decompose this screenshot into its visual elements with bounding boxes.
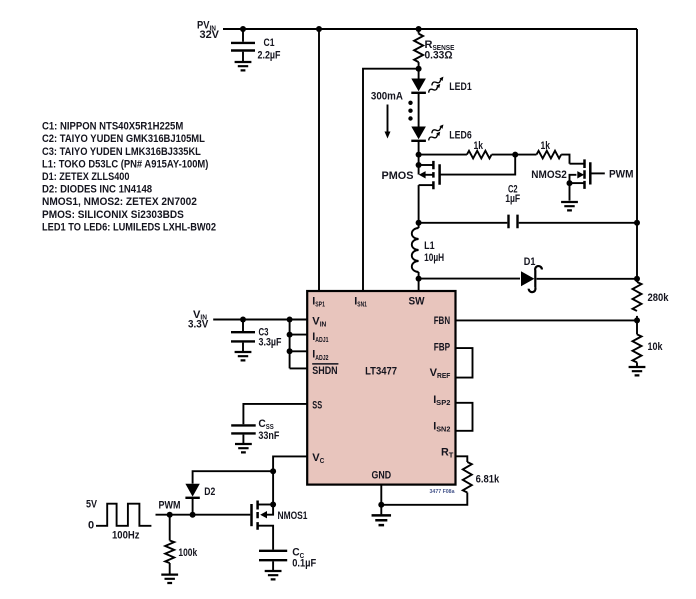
svg-text:D1: ZETEX ZLLS400: D1: ZETEX ZLLS400 xyxy=(42,171,130,183)
svg-text:PMOS: PMOS xyxy=(382,170,414,182)
wire ISN1 branch xyxy=(363,69,419,291)
svg-text:D2: DIODES INC 1N4148: D2: DIODES INC 1N4148 xyxy=(42,184,152,196)
waveform 5V/0 square wave xyxy=(86,498,151,541)
svg-text:2.2µF: 2.2µF xyxy=(258,50,281,62)
svg-text:100Hz: 100Hz xyxy=(112,530,140,542)
svg-text:280k: 280k xyxy=(648,292,670,304)
junction dot (RSENSE top) xyxy=(416,26,422,32)
LED1 xyxy=(411,69,471,94)
svg-text:C2: TAIYO YUDEN GMK316BJ105ML: C2: TAIYO YUDEN GMK316BJ105ML xyxy=(42,133,205,145)
wire GND pin xyxy=(380,485,382,515)
wire to D1 xyxy=(419,278,520,280)
svg-text:LT3477: LT3477 xyxy=(365,366,397,378)
capacitor C3 xyxy=(231,320,282,352)
wire LED string xyxy=(418,94,420,127)
svg-text:1k: 1k xyxy=(541,140,551,152)
svg-text:3.3µF: 3.3µF xyxy=(259,336,282,348)
ground (C3) xyxy=(235,352,252,360)
svg-text:C1: C1 xyxy=(264,37,275,49)
wire IADJ branch xyxy=(290,320,308,369)
junction dot (D2 tap) xyxy=(190,512,196,518)
svg-text:3477 F08a: 3477 F08a xyxy=(430,489,456,495)
junction dot (node RSENSE bottom) xyxy=(416,66,422,72)
ground (NMOS2) xyxy=(561,202,578,210)
svg-text:SW: SW xyxy=(409,295,426,307)
junction dot (gate node) xyxy=(512,152,518,158)
svg-text:C1: NIPPON NTS40X5R1H225M: C1: NIPPON NTS40X5R1H225M xyxy=(42,121,183,133)
svg-text:5V: 5V xyxy=(86,498,98,510)
LED6 xyxy=(411,124,471,154)
inductor L1 xyxy=(412,223,444,279)
svg-text:NMOS2: NMOS2 xyxy=(531,169,567,181)
svg-text:C3: TAIYO YUDEN LMK316BJ335KL: C3: TAIYO YUDEN LMK316BJ335KL xyxy=(42,146,201,158)
svg-text:3.3V: 3.3V xyxy=(188,318,209,330)
node VIN label xyxy=(188,309,209,331)
ground (C1) xyxy=(235,62,252,70)
resistor 1k (right) xyxy=(537,140,562,159)
svg-text:L1: TOKO D53LC (PN# A915AY-100: L1: TOKO D53LC (PN# A915AY-100M) xyxy=(42,158,209,170)
junction dot (IADJ2) xyxy=(287,348,293,354)
transistor NMOS1 xyxy=(252,471,308,549)
ground (GND pin) xyxy=(372,515,391,525)
capacitor CC xyxy=(259,547,316,570)
capacitor C1 xyxy=(231,29,281,62)
junction dot (VC node) xyxy=(270,468,276,474)
svg-text:SHDN: SHDN xyxy=(312,365,337,377)
svg-text:GND: GND xyxy=(372,470,392,482)
svg-text:10k: 10k xyxy=(648,341,664,353)
resistor 100k xyxy=(165,515,198,574)
resistor RSENSE xyxy=(414,29,454,69)
svg-text:L1: L1 xyxy=(424,240,435,252)
ellipsis dots xyxy=(408,101,412,121)
svg-text:SS: SS xyxy=(312,400,322,412)
wire ISP2-ISN2 bracket xyxy=(456,403,473,431)
svg-text:NMOS1: NMOS1 xyxy=(278,510,308,522)
svg-text:0: 0 xyxy=(88,519,94,531)
svg-text:0.1µF: 0.1µF xyxy=(292,557,316,569)
wire FBN xyxy=(456,319,638,321)
junction dot (GND node) xyxy=(378,502,384,508)
wire FBP-VREF bracket xyxy=(456,348,473,378)
resistor 1k (left) xyxy=(467,140,492,159)
junction dot (IADJ branch) xyxy=(287,317,293,323)
svg-text:PWM: PWM xyxy=(159,499,181,511)
svg-text:6.81k: 6.81k xyxy=(476,474,500,486)
resistor 280k xyxy=(633,282,670,334)
junction dot (SW node) xyxy=(416,276,422,282)
300mA annotation xyxy=(371,91,403,139)
ground (10k) xyxy=(629,367,646,375)
svg-text:10µH: 10µH xyxy=(424,252,444,264)
svg-text:LED1 TO LED6: LUMILEDS LXHL-BW: LED1 TO LED6: LUMILEDS LXHL-BW02 xyxy=(42,221,216,233)
junction dot (D1 right) xyxy=(634,276,640,282)
ground (100k) xyxy=(161,575,178,583)
junction dot (100k tap) xyxy=(167,512,173,518)
wire to NMOS2 drain xyxy=(561,155,569,164)
wire SS xyxy=(243,404,307,424)
svg-text:LED6: LED6 xyxy=(449,129,471,141)
svg-text:1k: 1k xyxy=(474,140,484,152)
svg-text:0.33Ω: 0.33Ω xyxy=(425,50,453,62)
svg-text:1µF: 1µF xyxy=(505,193,520,205)
junction dot (C3 tap) xyxy=(240,317,246,323)
ground (CSS) xyxy=(235,444,252,452)
ground (CC) xyxy=(265,571,282,579)
resistor RT 6.81k xyxy=(381,456,500,505)
svg-text:LED1: LED1 xyxy=(449,81,471,93)
svg-text:PWM: PWM xyxy=(609,169,634,181)
wire VC xyxy=(273,456,307,471)
svg-text:FBN: FBN xyxy=(434,315,451,327)
node PVIN label xyxy=(197,20,220,42)
svg-text:D2: D2 xyxy=(204,486,215,498)
junction dot (LED6 bottom node) xyxy=(416,152,422,158)
wire to 1k (left) xyxy=(419,154,467,156)
junction dot (C1 tap) xyxy=(240,26,246,32)
svg-text:300mA: 300mA xyxy=(371,91,403,103)
junction dot (C2 left) xyxy=(416,220,422,226)
junction dot (FBN node) xyxy=(634,317,640,323)
junction dot (C2 right) xyxy=(634,220,640,226)
parts list text block xyxy=(42,121,216,234)
wire ISP1 drop xyxy=(318,29,320,291)
capacitor CSS xyxy=(231,418,279,443)
wire right rail xyxy=(636,29,638,282)
resistor 10k xyxy=(633,334,664,366)
svg-text:PMOS: SILICONIX Si2303BDS: PMOS: SILICONIX Si2303BDS xyxy=(42,209,184,221)
wire VIN xyxy=(213,319,307,321)
transistor NMOS2 xyxy=(531,159,605,200)
svg-text:NMOS1, NMOS2: ZETEX 2N7002: NMOS1, NMOS2: ZETEX 2N7002 xyxy=(42,196,197,208)
wire top rail xyxy=(223,28,637,30)
svg-text:D1: D1 xyxy=(524,256,536,268)
svg-text:FBP: FBP xyxy=(434,341,450,353)
capacitor C2 xyxy=(419,183,637,228)
diode D2 xyxy=(185,484,215,515)
svg-text:100k: 100k xyxy=(178,547,197,559)
diode D1 schottky xyxy=(521,256,637,292)
wire SW pin xyxy=(418,279,420,291)
junction dot (ISP1 tap) xyxy=(316,26,322,32)
junction dot (IADJ1) xyxy=(287,332,293,338)
svg-text:33nF: 33nF xyxy=(258,430,279,442)
svg-text:32V: 32V xyxy=(200,29,220,41)
transistor PMOS xyxy=(382,155,516,223)
wire PWM node xyxy=(156,514,251,516)
op-chip U1 LT3477 xyxy=(307,291,455,485)
wire between 1k resistors xyxy=(492,154,537,156)
